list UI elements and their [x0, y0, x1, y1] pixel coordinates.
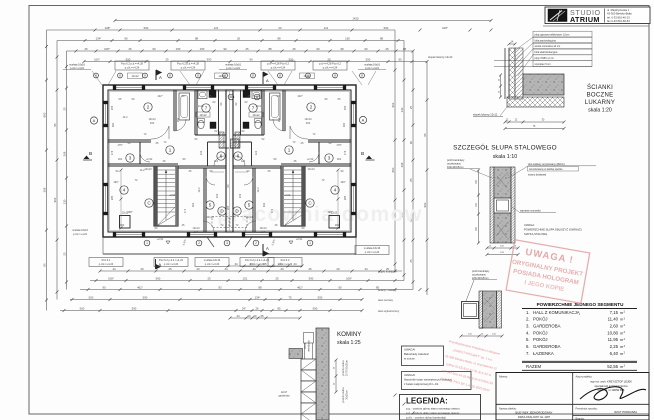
svg-text:A: A [159, 75, 162, 80]
entry door swings bottom [207, 237, 214, 247]
svg-text:24°: 24° [242, 306, 246, 310]
svg-text:A: A [266, 246, 269, 251]
svg-text:ATRIUM: ATRIUM [570, 15, 600, 24]
svg-text:A: A [362, 117, 365, 122]
svg-text:19x13: 19x13 [192, 226, 200, 230]
svg-text:poziom wieńca: poziom wieńca [343, 360, 345, 376]
svg-text:p.d.k.=+4,24: p.d.k.=+4,24 [181, 65, 196, 69]
svg-text:3: 3 [226, 241, 228, 245]
svg-text:176: 176 [110, 150, 114, 155]
svg-text:20: 20 [140, 267, 144, 271]
svg-text:p.d.k.=+4,24: p.d.k.=+4,24 [70, 67, 85, 70]
shaft black top [209, 91, 216, 98]
12x12 labels interior [196, 112, 210, 117]
column window [494, 198, 511, 213]
svg-text:6.: 6. [526, 344, 530, 349]
svg-text:skala 1:25: skala 1:25 [337, 340, 361, 346]
svg-text:255: 255 [343, 105, 347, 110]
svg-text:75: 75 [288, 295, 292, 299]
garderoba walls [251, 142, 253, 166]
svg-text:2,25: 2,25 [610, 344, 619, 349]
svg-text:121: 121 [214, 26, 219, 30]
wall room3 vertical [139, 142, 141, 164]
svg-text:25: 25 [327, 57, 331, 61]
svg-text:POKÓJ: POKÓJ [533, 330, 548, 335]
svg-text:1: 1 [146, 241, 148, 245]
svg-text:90: 90 [364, 47, 368, 51]
svg-text:p.d.k.=+4,24: p.d.k.=+4,24 [125, 65, 140, 69]
svg-text:122: 122 [241, 159, 246, 163]
svg-text:25: 25 [84, 47, 88, 51]
top dimension chain 1420 [115, 20, 491, 22]
svg-text:121: 121 [324, 26, 329, 30]
eaves line below plan [103, 253, 356, 255]
svg-text:p.d.k.=+4,24: p.d.k.=+4,24 [205, 262, 220, 266]
svg-text:p.d.=+4,28 Poz.6.2: p.d.=+4,28 Poz.6.2 [319, 62, 341, 66]
svg-text:90: 90 [338, 285, 342, 289]
svg-text:3.: 3. [526, 324, 530, 329]
axis circles A [90, 117, 97, 124]
lukarny insulation strip [507, 97, 564, 107]
svg-text:88: 88 [195, 36, 199, 40]
uwaga box 2 [402, 372, 472, 390]
svg-text:stan surowy: stan surowy [378, 298, 394, 302]
dashed skylight [230, 217, 247, 228]
svg-text:5: 5 [209, 203, 212, 208]
svg-text:4: 4 [123, 188, 126, 193]
kominy left small bar [304, 333, 314, 344]
svg-text:44: 44 [234, 262, 238, 266]
chimney hatch center [231, 139, 240, 148]
profile square [462, 302, 479, 319]
svg-text:175°: 175° [336, 143, 341, 147]
svg-text:98: 98 [340, 47, 344, 51]
svg-text:2: 2 [147, 105, 150, 110]
svg-text:8: 8 [230, 95, 232, 99]
bath inner wall [240, 90, 242, 135]
svg-text:190°: 190° [340, 180, 345, 184]
svg-text:3: 3 [129, 156, 132, 161]
svg-text:52,55: 52,55 [607, 364, 618, 369]
svg-text:POKÓJ: POKÓJ [533, 317, 548, 322]
red stamp uwaga hologram [506, 240, 590, 303]
svg-text:13x13: 13x13 [206, 215, 214, 219]
svg-text:219: 219 [238, 193, 242, 198]
sink [252, 91, 261, 99]
svg-text:100x100x5mm: 100x100x5mm [447, 166, 463, 169]
svg-text:25: 25 [165, 57, 169, 61]
svg-text:102°: 102° [297, 94, 302, 98]
svg-text:poziom wieńca: poziom wieńca [343, 387, 345, 403]
svg-text:90: 90 [316, 47, 320, 51]
logo underline [543, 25, 649, 27]
floor plan outer wall [103, 85, 356, 237]
svg-text:1: 1 [309, 241, 311, 245]
stair treads [157, 169, 175, 171]
svg-text:176: 176 [343, 150, 347, 155]
svg-text:20: 20 [196, 267, 200, 271]
svg-text:Balustrady zakotwić: Balustrady zakotwić [404, 352, 429, 356]
level triangles [166, 241, 170, 244]
logo box STUDIO ATRIUM [545, 7, 650, 24]
svg-text:1.: 1. [526, 310, 530, 315]
svg-text:25: 25 [409, 259, 413, 263]
lukarny bottom dims [505, 121, 564, 123]
svg-text:108°: 108° [108, 276, 114, 280]
svg-text:p.d. - poziom dolny stanu suro: p.d. - poziom dolny stanu surowego otwor… [406, 411, 460, 415]
room5 wall [254, 168, 256, 232]
svg-text:302: 302 [191, 202, 195, 207]
interior doors arcs [290, 126, 308, 139]
window [116, 232, 142, 237]
signature [580, 387, 646, 400]
lower column detail [460, 270, 504, 338]
bathtub [179, 93, 190, 120]
svg-text:462°: 462° [297, 285, 303, 289]
svg-text:90: 90 [398, 57, 402, 61]
svg-text:83: 83 [218, 285, 222, 289]
svg-text:B: B [89, 151, 92, 157]
svg-text:800: 800 [391, 167, 395, 172]
svg-text:8: 8 [256, 95, 258, 99]
svg-text:265: 265 [226, 205, 230, 210]
title block [496, 373, 649, 420]
svg-text:UWAGA!: UWAGA! [404, 373, 415, 377]
svg-text:słupek lukarny 12x12: słupek lukarny 12x12 [428, 55, 453, 59]
garderoba walls [207, 142, 209, 166]
stair treads [284, 169, 302, 171]
svg-text:p.d.k.=+4,24: p.d.k.=+4,24 [365, 250, 380, 254]
svg-text:fax 0-33 810-66-54: fax 0-33 810-66-54 [607, 19, 630, 23]
svg-text:6,40: 6,40 [610, 351, 619, 356]
svg-text:p.d.k.=+4,24: p.d.k.=+4,24 [164, 262, 179, 266]
svg-text:folia paroizolacyjna: folia paroizolacyjna [535, 39, 557, 42]
svg-text:438°: 438° [127, 210, 132, 214]
window [245, 232, 269, 237]
svg-text:GARDEROBA: GARDEROBA [533, 344, 561, 349]
svg-text:25: 25 [168, 267, 172, 271]
lukarny left dim [500, 75, 502, 97]
entry door bottom [245, 221, 256, 232]
svg-text:płyty OSB 1,2 cm: płyty OSB 1,2 cm [535, 57, 554, 60]
svg-text:wentylacja: wentylacja [308, 340, 311, 352]
svg-text:25: 25 [62, 252, 66, 256]
bottom dimension chain row 5 stan wykonczony [60, 310, 362, 312]
interior wall under bath [178, 165, 226, 167]
svg-text:6: 6 [237, 154, 240, 159]
boxed label [171, 61, 205, 70]
svg-text:44: 44 [224, 267, 228, 271]
svg-text:800: 800 [42, 112, 46, 117]
svg-text:438°: 438° [327, 210, 332, 214]
svg-text:500: 500 [89, 295, 94, 299]
red stamp firm [439, 339, 501, 393]
svg-text:+2,92: +2,92 [169, 193, 176, 197]
svg-text:368: 368 [42, 187, 46, 192]
lukarny wall section detail [473, 31, 615, 130]
svg-text:903: 903 [53, 197, 57, 202]
svg-text:390: 390 [111, 122, 115, 127]
svg-text:44: 44 [293, 262, 297, 266]
svg-text:p.d.k.=+4,24: p.d.k.=+4,24 [250, 262, 265, 266]
svg-text:12x12: 12x12 [252, 113, 260, 117]
svg-text:12x12: 12x12 [199, 113, 207, 117]
kominy block cells [301, 359, 316, 370]
toilet [255, 120, 261, 128]
svg-text:292: 292 [277, 117, 281, 122]
top dimension chain row 3 [57, 40, 404, 42]
svg-text:p.d.k. - poziom dolny konstruk: p.d.k. - poziom dolny konstrukcji [406, 416, 446, 420]
svg-text:903: 903 [391, 102, 395, 107]
boxed label [154, 258, 188, 267]
svg-text:368: 368 [400, 162, 404, 167]
svg-text:ŁAZIENKA: ŁAZIENKA [533, 351, 554, 356]
svg-text:19x13: 19x13 [304, 117, 312, 121]
svg-text:B: B [361, 151, 364, 157]
svg-text:13x13: 13x13 [144, 167, 152, 171]
svg-text:2: 2 [255, 241, 257, 245]
boxed label [313, 61, 347, 70]
svg-text:4.: 4. [526, 330, 530, 335]
svg-text:25: 25 [260, 314, 264, 318]
stair enclosure [154, 166, 178, 226]
svg-text:302: 302 [337, 157, 342, 161]
svg-text:1420: 1420 [352, 16, 359, 20]
stair enclosure [281, 166, 305, 226]
svg-text:590: 590 [132, 306, 137, 310]
svg-text:+2,91: +2,91 [157, 237, 164, 241]
svg-text:p.d.k.=+4,24: p.d.k.=+4,24 [73, 233, 88, 236]
svg-text:HALL Z KOMUNIKACJĄ: HALL Z KOMUNIKACJĄ [533, 310, 580, 315]
svg-text:130: 130 [400, 107, 404, 112]
svg-text:95: 95 [53, 123, 57, 127]
section flag A bottom-left [156, 259, 161, 269]
boxed label [261, 61, 295, 70]
svg-text:13,2: 13,2 [256, 187, 260, 193]
svg-text:Branża:: Branża: [576, 416, 585, 420]
svg-text:90: 90 [223, 47, 227, 51]
svg-text:2: 2 [310, 105, 313, 110]
window [186, 85, 211, 90]
svg-text:90: 90 [124, 36, 128, 40]
window [317, 85, 343, 90]
svg-text:płyty gipsowo-włókniowe 1,0cm: płyty gipsowo-włókniowe 1,0cm [535, 33, 570, 36]
svg-text:95: 95 [423, 133, 427, 137]
svg-text:10,80: 10,80 [607, 330, 618, 335]
svg-text:20: 20 [278, 26, 282, 30]
svg-text:368: 368 [62, 151, 66, 156]
svg-text:122: 122 [199, 150, 203, 155]
svg-text:25: 25 [409, 106, 413, 110]
svg-text:Poz.6.2 p.d.k.=+4,24: Poz.6.2 p.d.k.=+4,24 [159, 258, 183, 262]
svg-text:2,60: 2,60 [610, 324, 619, 329]
svg-text:p.d.k.=+4,24: p.d.k.=+4,24 [271, 65, 286, 69]
svg-text:5: 5 [248, 203, 251, 208]
svg-text:SZCZEGÓŁ SŁUPA STALOWEGO: SZCZEGÓŁ SŁUPA STALOWEGO [453, 143, 557, 152]
svg-text:3: 3 [328, 156, 331, 161]
svg-text:12x12: 12x12 [303, 74, 311, 78]
svg-text:ŚCIANKI: ŚCIANKI [587, 83, 613, 91]
interior wall hall/rooms [108, 163, 178, 165]
bottom dimension chain row 4 stan surowy [70, 299, 362, 301]
svg-text:122: 122 [214, 159, 219, 163]
svg-text:25: 25 [245, 47, 249, 51]
boxed label [89, 258, 123, 267]
svg-text:murłata 16x16: murłata 16x16 [72, 229, 88, 232]
svg-text:85: 85 [277, 306, 281, 310]
svg-text:POKÓJ: POKÓJ [533, 337, 548, 342]
svg-text:400: 400 [306, 121, 311, 125]
svg-text:130: 130 [62, 199, 66, 204]
svg-text:400: 400 [194, 230, 199, 234]
svg-text:903: 903 [423, 202, 427, 207]
svg-text:w murze.: w murze. [404, 357, 416, 361]
svg-text:ściany działowej: ściany działowej [528, 173, 547, 176]
svg-text:500: 500 [80, 306, 85, 310]
svg-text:13x13: 13x13 [255, 104, 263, 108]
svg-text:590: 590 [143, 295, 148, 299]
svg-text:550: 550 [289, 57, 294, 61]
svg-text:LUKARNY: LUKARNY [585, 100, 615, 106]
svg-text:44: 44 [236, 314, 240, 318]
svg-text:88: 88 [380, 36, 384, 40]
kominy right dims [335, 360, 337, 392]
interior wall bedroom bottom [308, 139, 351, 141]
svg-text:108°: 108° [104, 47, 110, 51]
svg-text:25: 25 [275, 276, 279, 280]
svg-text:z belek nadprożowych L-19.: z belek nadprożowych L-19. [404, 382, 439, 386]
svg-text:302: 302 [118, 157, 123, 161]
svg-text:20: 20 [336, 267, 340, 271]
svg-text:6: 6 [220, 154, 223, 159]
svg-text:88: 88 [258, 285, 262, 289]
svg-text:390: 390 [120, 223, 125, 227]
interior doors arcs [151, 126, 169, 139]
shaft black mid [210, 122, 216, 129]
svg-text:BOCZNE: BOCZNE [587, 93, 614, 99]
svg-text:30x25cm: 30x25cm [347, 390, 349, 399]
left dim [478, 170, 480, 243]
svg-text:wmontowany w każdej spoinie: wmontowany w każdej spoinie [529, 168, 563, 171]
svg-text:13x13: 13x13 [307, 167, 315, 171]
svg-text:Przedmiot rysunku:: Przedmiot rysunku: [576, 406, 598, 410]
shaft black top [243, 91, 250, 98]
svg-text:43-300 Bielsko-Biała: 43-300 Bielsko-Biała [607, 12, 632, 16]
svg-text:26: 26 [255, 306, 259, 310]
svg-text:A: A [266, 78, 269, 83]
svg-text:85: 85 [42, 263, 46, 267]
boxed label [268, 258, 302, 267]
small circled axes bottom [144, 240, 150, 246]
svg-text:tel. 0-33 816-40-13: tel. 0-33 816-40-13 [607, 15, 630, 19]
duct hatch [219, 132, 224, 148]
svg-text:590: 590 [144, 26, 149, 30]
svg-text:13x13: 13x13 [245, 215, 253, 219]
svg-text:RZUT PODDASZA: RZUT PODDASZA [614, 410, 637, 414]
window [351, 104, 356, 124]
interior wall under bath [233, 165, 281, 167]
svg-text:LEGENDA:: LEGENDA: [406, 397, 448, 406]
wall bedroom/bath vertical [173, 90, 175, 131]
svg-text:13,2: 13,2 [122, 115, 128, 119]
section flag A top-left [156, 70, 161, 80]
svg-text:20: 20 [247, 314, 251, 318]
svg-text:5.: 5. [526, 337, 530, 342]
svg-text:85: 85 [409, 178, 413, 182]
room5 wall [203, 168, 205, 232]
bathroom wall [194, 90, 196, 135]
interior wall hall/rooms [281, 163, 351, 165]
svg-text:1: 1 [169, 148, 172, 153]
uwaga box 1 [402, 346, 444, 366]
svg-text:100x100x5mm: 100x100x5mm [472, 277, 488, 280]
svg-text:wełna mineralna 14 cm: wełna mineralna 14 cm [535, 45, 561, 48]
section flag A bottom [263, 244, 268, 256]
svg-text:ul. Międzyrzecka 1: ul. Międzyrzecka 1 [607, 8, 630, 12]
svg-text:7.: 7. [526, 351, 530, 356]
bottom dims [487, 247, 518, 249]
svg-text:p.d.k.=+4,24: p.d.k.=+4,24 [323, 65, 338, 69]
fireplace block [329, 216, 340, 229]
svg-text:zaprawa murarska: zaprawa murarska [520, 210, 541, 213]
bathtub [270, 93, 281, 120]
svg-text:Poz.6.2 p.d.=+4,28: Poz.6.2 p.d.=+4,28 [121, 62, 143, 66]
top dimension chain row 2 [47, 29, 396, 31]
svg-text:19x13: 19x13 [148, 117, 156, 121]
svg-text:90: 90 [409, 141, 413, 145]
lukarny concrete beam [523, 74, 564, 95]
svg-text:p.d.k.=+4,24: p.d.k.=+4,24 [99, 262, 114, 266]
svg-text:134°: 134° [96, 36, 102, 40]
leader funnels to wall [92, 71, 102, 85]
svg-text:murłata 16x16: murłata 16x16 [364, 246, 381, 250]
svg-text:25: 25 [62, 107, 66, 111]
svg-text:390: 390 [342, 122, 346, 127]
svg-text:100°: 100° [94, 57, 100, 61]
svg-text:Poz.6.2: Poz.6.2 [281, 258, 290, 262]
svg-text:25: 25 [386, 267, 390, 271]
shaft black mid [243, 122, 249, 129]
svg-text:19x13: 19x13 [259, 226, 267, 230]
svg-text:+2,92: +2,92 [284, 193, 291, 197]
svg-text:2: 2 [198, 241, 200, 245]
svg-text:27/70 50x25cm: 27/70 50x25cm [347, 360, 349, 376]
svg-text:90: 90 [152, 47, 156, 51]
lukarny layer labels [533, 31, 592, 37]
svg-text:11,40: 11,40 [608, 317, 619, 322]
svg-text:12x12: 12x12 [218, 74, 226, 78]
svg-text:11,95: 11,95 [608, 337, 619, 342]
boxed label [240, 258, 274, 267]
svg-text:219: 219 [215, 193, 219, 198]
svg-text:390: 390 [335, 223, 340, 227]
svg-text:462°: 462° [137, 285, 143, 289]
dim 14 top [509, 43, 515, 45]
svg-text:150: 150 [200, 47, 205, 51]
svg-text:150: 150 [345, 36, 350, 40]
svg-text:p.d.k.=+4,24: p.d.k.=+4,24 [365, 67, 380, 70]
svg-text:UWAGA:: UWAGA: [524, 223, 535, 227]
lower dims [461, 335, 502, 337]
svg-text:p.d.=+4,28 Poz.6.2: p.d.=+4,28 Poz.6.2 [267, 62, 289, 66]
window [351, 186, 356, 212]
window [103, 186, 108, 212]
svg-text:88: 88 [268, 47, 272, 51]
party wall [226, 90, 233, 232]
svg-text:A: A [93, 118, 96, 123]
svg-text:88: 88 [277, 36, 281, 40]
svg-text:7: 7 [252, 106, 255, 111]
